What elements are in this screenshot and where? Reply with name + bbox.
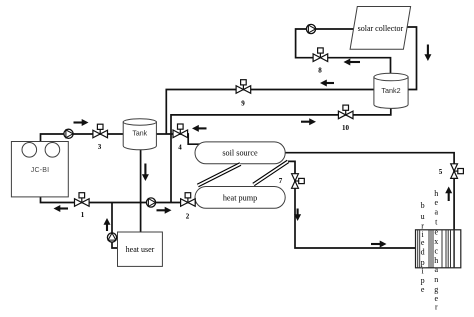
- arrow up above exchanger near valve 5: [445, 187, 452, 202]
- svg-text:5: 5: [439, 168, 443, 176]
- pump P-jc: [64, 129, 73, 138]
- solar collector panel: [350, 7, 411, 50]
- svg-text:7: 7: [279, 177, 283, 185]
- valve 9: [236, 80, 251, 94]
- arrow left near valve 8: [344, 59, 361, 66]
- svg-text:JC-BI: JC-BI: [31, 167, 50, 174]
- valve 2: [181, 193, 196, 207]
- svg-text:2: 2: [186, 213, 190, 221]
- tank Tank2: [374, 73, 408, 108]
- svg-text:4: 4: [178, 143, 182, 151]
- svg-text:9: 9: [241, 100, 245, 108]
- heat pump unit: [195, 187, 285, 209]
- svg-text:Tank2: Tank2: [381, 86, 400, 95]
- arrow right below main pipe before valve 2: [157, 207, 172, 214]
- arrow left above pipe 9: [320, 80, 334, 87]
- valve 1: [75, 193, 90, 207]
- pump P-main: [146, 198, 155, 207]
- wire JC-BI bottom main pipe to heat pump: [41, 197, 198, 203]
- arrow down beside solar collector right pipe: [424, 45, 431, 62]
- svg-text:1: 1: [81, 211, 85, 219]
- valve 3: [93, 124, 108, 138]
- arrow left below JC-BI bottom pipe: [54, 205, 69, 212]
- buried pipe heat exchanger: [416, 230, 461, 268]
- double-line pipe between heat pump and valve 7 corner (right): [254, 161, 289, 184]
- valve 10: [338, 105, 353, 119]
- arrow down below valve 7: [294, 209, 301, 222]
- arrow right below pipe 10: [301, 118, 316, 125]
- wire solar collector right down to Tank2 right: [407, 27, 417, 90]
- wire heat user branch: [112, 203, 118, 249]
- svg-text:heat user: heat user: [126, 245, 155, 254]
- wire solar collector left loop to valve 8 line to Tank2 top: [296, 29, 391, 75]
- svg-text:10: 10: [342, 124, 350, 132]
- wire pipe 10: Tank2 bottom down, left, down to main pipe: [171, 106, 391, 203]
- wire Tank right through valve 4 to soil source: [156, 134, 200, 144]
- valve 4: [173, 124, 188, 138]
- soil source unit: [195, 142, 285, 164]
- arrow right above bottom pipe to exchanger: [371, 241, 387, 248]
- wire Tank bottom to heat user top: [140, 149, 142, 233]
- svg-text:3: 3: [98, 143, 102, 151]
- valve 8: [313, 48, 328, 62]
- svg-text:solar collector: solar collector: [358, 24, 404, 33]
- svg-text:buriedpipe: buriedpipe: [421, 201, 425, 294]
- wire valve 7 leg down and bottom pipe to exchanger left: [288, 161, 416, 248]
- valve 5 (vertical): [451, 164, 464, 179]
- boiler JC-BI: [11, 142, 68, 197]
- heat user box: [118, 232, 163, 266]
- tank Tank: [123, 119, 156, 150]
- wire soil source right to valve 5 to exchanger top: [284, 153, 454, 230]
- svg-text:heat pump: heat pump: [223, 193, 257, 202]
- svg-text:soil source: soil source: [222, 149, 258, 158]
- arrow left above soil source near valve 4: [192, 125, 207, 132]
- pump P-user (vertical): [107, 233, 116, 242]
- arrow up at heat user branch: [104, 218, 111, 231]
- arrow right above JC-BI top pipe: [74, 119, 89, 126]
- wire JC-BI top to Tank left: [41, 134, 124, 142]
- wire pipe 9: Tank2 left to down-leg at x=166: [166, 90, 374, 135]
- svg-text:heatexchanger: heatexchanger: [434, 189, 438, 312]
- svg-text:Tank: Tank: [132, 130, 147, 137]
- arrow down beside tank-to-heat-user line: [142, 164, 149, 182]
- svg-text:8: 8: [318, 67, 322, 75]
- double-line pipe between heat pump and soil source (left): [198, 164, 241, 186]
- pump P-solar: [306, 24, 315, 33]
- valve 7 (vertical): [292, 174, 305, 189]
